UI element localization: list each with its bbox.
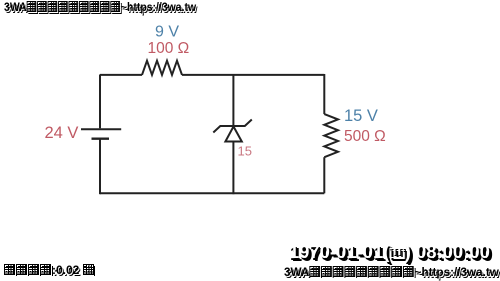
- wire: left rail bottom: [99, 140, 101, 195]
- datetime stamp 1970-01-01(四) 08:00:00: [289, 244, 291, 246]
- wire: middle branch top: [232, 75, 234, 127]
- battery B1 24V short plate: [92, 137, 110, 139]
- zener diode D1 anode triangle: [225, 127, 241, 142]
- wire: right rail bottom segment: [323, 157, 325, 193]
- svg-text:100 Ω: 100 Ω: [148, 40, 190, 57]
- watermark top-left: 3WA brand ~https://3wa.tw: [3, 0, 5, 2]
- wire: right rail top segment: [323, 74, 325, 114]
- wire: left rail top (battery cathode lead): [99, 75, 101, 129]
- resistor R2 500Ω (right, vertical zigzag): [324, 114, 338, 157]
- watermark bottom-left: load-time text: [3, 263, 5, 265]
- battery B1 24V long plate: [81, 128, 121, 130]
- wire: top rail left segment: [100, 74, 142, 76]
- svg-text:15 V: 15 V: [344, 107, 378, 125]
- wire: top rail right segment: [182, 74, 324, 76]
- watermark bottom-right: 3WA brand ~https://3wa.tw: [283, 265, 285, 267]
- resistor R1 100Ω (top, zigzag): [142, 61, 182, 75]
- wire: bottom rail: [100, 192, 324, 194]
- svg-text:9 V: 9 V: [155, 24, 179, 41]
- wire: middle branch bottom: [232, 142, 234, 195]
- zener diode D1 cathode bar with bent tails: [213, 120, 252, 133]
- svg-text:15: 15: [238, 143, 252, 158]
- svg-text:500 Ω: 500 Ω: [344, 128, 386, 145]
- svg-text:24 V: 24 V: [45, 124, 79, 142]
